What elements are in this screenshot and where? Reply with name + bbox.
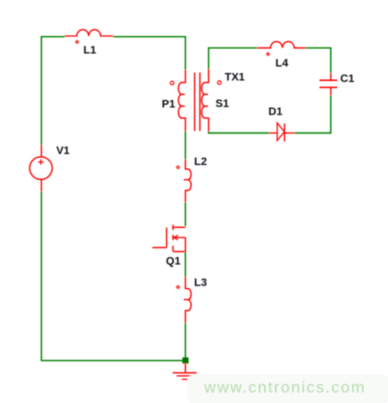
transformer core bars bbox=[195, 73, 200, 132]
wire: top horizontal right segment to main rail bbox=[113, 37, 185, 70]
svg-text:L3: L3 bbox=[194, 277, 207, 289]
svg-text:P1: P1 bbox=[162, 98, 175, 110]
svg-text:L1: L1 bbox=[83, 44, 96, 56]
svg-text:D1: D1 bbox=[268, 106, 282, 118]
diode D1 bbox=[269, 132, 294, 134]
svg-text:L4: L4 bbox=[275, 58, 289, 70]
plus sign of V1 bbox=[38, 159, 43, 164]
polarity dot secondary bbox=[218, 81, 222, 85]
inductor L1 bbox=[65, 30, 113, 36]
wire: L4 to top-right corner down to C1 bbox=[306, 48, 331, 73]
transformer TX1 primary winding P1 bbox=[178, 70, 185, 132]
marker diamond L3 bbox=[177, 286, 180, 289]
transistor Q1 (N-MOSFET) bbox=[152, 228, 166, 248]
svg-text:V1: V1 bbox=[56, 145, 69, 157]
wire: top horizontal left segment bbox=[41, 37, 64, 146]
ground bbox=[184, 363, 186, 372]
wire: right rail below C1 bbox=[294, 96, 330, 133]
wire: main rail transformer to L2 bbox=[184, 131, 186, 159]
svg-text:S1: S1 bbox=[216, 98, 229, 110]
capacitor C1 bbox=[330, 73, 332, 96]
svg-text:L2: L2 bbox=[194, 156, 207, 168]
marker diamond L1 bbox=[76, 40, 79, 43]
transformer secondary winding S1 bbox=[202, 69, 209, 132]
svg-text:Q1: Q1 bbox=[166, 255, 181, 267]
wire: L3 to junction bbox=[184, 323, 186, 361]
inductor L3 bbox=[184, 277, 191, 323]
watermark background box bbox=[188, 374, 388, 403]
wire: L2 to Q1 drain bbox=[184, 202, 186, 226]
svg-text:TX1: TX1 bbox=[225, 71, 245, 83]
inductor L4 bbox=[257, 42, 305, 48]
polarity dot primary bbox=[170, 81, 174, 85]
wire: Q1 source to L3 bbox=[184, 252, 186, 278]
arrow of Q1 body bbox=[174, 235, 178, 240]
voltage source V1 bbox=[40, 145, 42, 191]
svg-text:www.cntronics.com: www.cntronics.com bbox=[203, 380, 366, 397]
inductor L2 bbox=[184, 160, 191, 202]
wire: secondary top to right loop bbox=[209, 48, 258, 69]
marker diamond L2 bbox=[177, 166, 180, 169]
wire: secondary bottom to diode bbox=[209, 131, 270, 133]
marker diamond L4 bbox=[267, 53, 270, 56]
svg-text:C1: C1 bbox=[340, 73, 354, 85]
node junction bbox=[182, 357, 188, 363]
wire: left rail below V1 bbox=[41, 191, 182, 360]
